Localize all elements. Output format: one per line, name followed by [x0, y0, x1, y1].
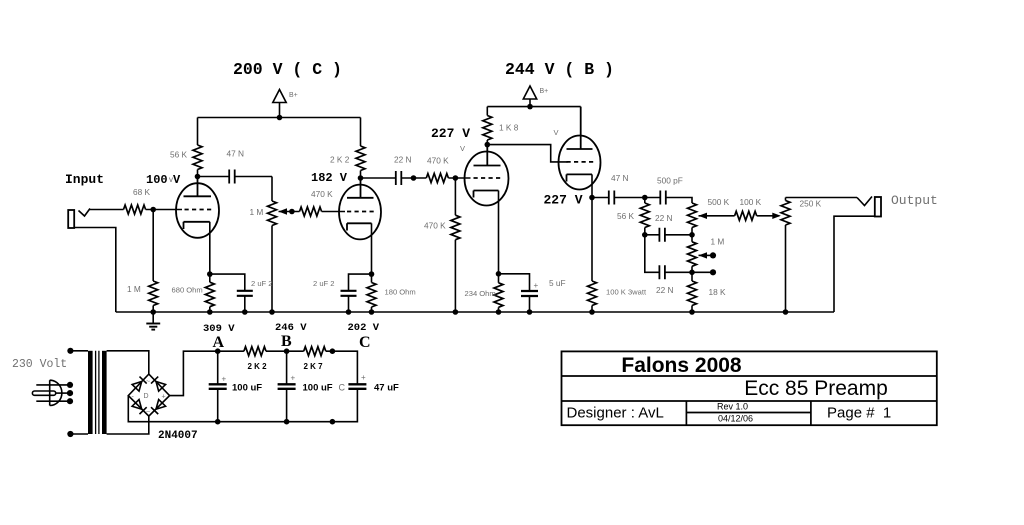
- svg-text:+: +: [534, 281, 539, 290]
- wire bridge + to node A rail: [170, 351, 244, 395]
- resistor 234 Ohm cathode V2a: [498, 274, 500, 283]
- svg-text:250 K: 250 K: [800, 199, 822, 209]
- svg-text:470 K: 470 K: [424, 221, 446, 231]
- resistor 18K: [691, 272, 693, 281]
- resistor 56K tone: [644, 198, 646, 204]
- svg-text:200 V ( C ): 200 V ( C ): [233, 60, 342, 79]
- wire output sleeve to ground: [834, 216, 875, 312]
- input jack J1: [68, 209, 90, 229]
- svg-text:470 K: 470 K: [427, 156, 449, 166]
- potentiometer 1M bass: [691, 235, 693, 242]
- svg-text:100: 100: [146, 173, 168, 187]
- svg-text:2 K 2: 2 K 2: [330, 155, 350, 165]
- ground: [146, 312, 160, 330]
- svg-text:246 V: 246 V: [275, 322, 307, 334]
- B+ symbol 2: [527, 104, 533, 110]
- svg-text:100 uF: 100 uF: [303, 383, 333, 394]
- resistor 56K plate V1a: [197, 118, 199, 146]
- svg-text:2 uF 2: 2 uF 2: [251, 279, 273, 288]
- svg-text:202 V: 202 V: [348, 322, 380, 334]
- node B: [284, 348, 290, 354]
- svg-text:47 uF: 47 uF: [374, 383, 399, 394]
- potentiometer 500K treble: [688, 203, 697, 228]
- capacitor 500pF: [660, 191, 666, 205]
- capacitor 2uF2 cathode V1b: [349, 274, 372, 290]
- capacitor 47N coupling 1: [198, 176, 230, 178]
- B+ symbol 1: [277, 115, 283, 121]
- wire secondary to bridge: [107, 351, 149, 434]
- capacitor 22N coupling 2: [361, 177, 396, 179]
- svg-text:B+: B+: [540, 88, 549, 95]
- cathode network V2a: node: [496, 271, 502, 277]
- svg-text:04/12/06: 04/12/06: [718, 414, 753, 424]
- resistor 2K2 plate V1b: [360, 118, 362, 147]
- wiper 500K: [699, 213, 708, 219]
- svg-text:+: +: [361, 373, 366, 382]
- svg-text:227 V: 227 V: [431, 126, 470, 141]
- node plate V1a: [195, 174, 201, 180]
- svg-text:+: +: [222, 375, 227, 384]
- svg-text:Page # 1: Page # 1: [827, 405, 891, 422]
- potentiometer 250K level: [785, 198, 787, 201]
- power rail 244V B: [487, 106, 580, 108]
- node grid V1a: [150, 207, 156, 213]
- svg-text:234 Ohm: 234 Ohm: [465, 289, 496, 298]
- svg-text:180 Ohm: 180 Ohm: [385, 288, 416, 297]
- svg-text:5 uF: 5 uF: [549, 278, 566, 288]
- svg-text:680 Ohm: 680 Ohm: [172, 286, 203, 295]
- svg-text:V: V: [554, 128, 559, 137]
- svg-text:V: V: [173, 173, 181, 187]
- resistor 680 Ohm cathode V1a: [209, 274, 211, 282]
- svg-text:309 V: 309 V: [203, 323, 235, 335]
- svg-text:22 N: 22 N: [655, 213, 673, 223]
- svg-text:Designer : AvL: Designer : AvL: [567, 405, 664, 422]
- resistor 100K output: [735, 211, 757, 220]
- svg-text:2 K 2: 2 K 2: [248, 362, 268, 371]
- node grid V2a: [453, 175, 459, 181]
- tube V2a ECC85 triode: [465, 145, 509, 274]
- capacitor 100uF B: [286, 351, 288, 384]
- wire ground rail: [116, 311, 834, 313]
- svg-text:B: B: [281, 333, 292, 350]
- tube V1b ECC85 triode: [339, 178, 381, 274]
- svg-text:Falons 2008: Falons 2008: [621, 354, 742, 377]
- svg-text:B+: B+: [289, 92, 298, 99]
- svg-text:C: C: [359, 334, 371, 351]
- svg-text:47 N: 47 N: [611, 173, 629, 183]
- svg-text:Ecc 85 Preamp: Ecc 85 Preamp: [744, 377, 888, 400]
- tube V1a ECC85 triode: [176, 177, 219, 275]
- output jack J2: [857, 197, 872, 206]
- resistor 470K grid V2a: [454, 178, 456, 215]
- svg-text:244 V ( B ): 244 V ( B ): [505, 60, 614, 79]
- resistor 100K 3watt: [591, 198, 593, 282]
- svg-text:470 K: 470 K: [311, 189, 333, 199]
- node cathode V2b 227V: [589, 195, 595, 201]
- svg-text:Rev 1.0: Rev 1.0: [717, 402, 748, 412]
- resistor 2K2 supply: [244, 347, 266, 356]
- svg-text:V: V: [460, 144, 465, 153]
- svg-text:v: v: [169, 175, 173, 184]
- resistor 1M grid leak: [152, 210, 154, 282]
- svg-text:500 pF: 500 pF: [657, 176, 683, 186]
- svg-text:68 K: 68 K: [133, 187, 151, 197]
- resistor 180 Ohm cathode V1b: [371, 274, 373, 282]
- svg-text:D: D: [144, 393, 149, 400]
- wire jack sleeve to ground: [74, 228, 116, 313]
- svg-text:18 K: 18 K: [709, 287, 727, 297]
- wire bridge - return: [128, 389, 357, 422]
- node plate V1b: [358, 175, 364, 181]
- wiper 1M bass: [699, 252, 708, 258]
- wiper 1M volume: [279, 208, 288, 214]
- resistor 1K8 plate V2a: [486, 107, 488, 116]
- svg-text:Input: Input: [65, 172, 104, 187]
- capacitor 22N mid: [645, 234, 660, 236]
- svg-text:22 N: 22 N: [394, 155, 412, 165]
- wiper 250K arrow: [772, 213, 781, 219]
- cathode network V1a: node: [207, 271, 213, 277]
- tube V2b ECC85 triode: [559, 107, 601, 198]
- svg-text:47 N: 47 N: [227, 149, 245, 159]
- resistor 470K series: [426, 174, 448, 183]
- svg-text:1 M: 1 M: [250, 207, 264, 217]
- svg-text:+: +: [291, 374, 296, 383]
- svg-text:22 N: 22 N: [656, 285, 674, 295]
- wire 68K to V1a grid: [146, 209, 182, 211]
- svg-text:100 K: 100 K: [740, 197, 762, 207]
- svg-text:100 K 3watt: 100 K 3watt: [606, 288, 647, 297]
- transformer T1: [67, 348, 73, 354]
- svg-text:+: +: [162, 394, 166, 401]
- capacitor 47uF C: [348, 384, 366, 389]
- svg-text:~: ~: [146, 379, 150, 386]
- bridge rectifier D 2N4007: [128, 374, 169, 416]
- svg-text:1 M: 1 M: [711, 237, 725, 247]
- svg-text:56 K: 56 K: [617, 211, 635, 221]
- wire to output jack: [786, 197, 858, 199]
- capacitor 47N output: [592, 197, 609, 199]
- node plate V2a / grid V2b: [485, 142, 491, 148]
- node A: [215, 348, 221, 354]
- capacitor 22N bottom: [645, 235, 660, 272]
- svg-text:~: ~: [146, 409, 150, 416]
- wire dc-couple plate V2a to grid V2b: [487, 145, 567, 162]
- mains plug P1: [32, 380, 69, 405]
- capacitor 100uF A: [217, 351, 219, 384]
- power rail 200V C: [198, 117, 361, 119]
- svg-text:182 V: 182 V: [311, 171, 348, 185]
- resistor 2K7 supply: [304, 347, 326, 356]
- svg-text:230 Volt: 230 Volt: [12, 358, 67, 371]
- svg-text:1 M: 1 M: [127, 284, 141, 294]
- cathode network V1b: node: [369, 271, 375, 277]
- resistor 68K: [124, 205, 146, 214]
- svg-text:2 uF 2: 2 uF 2: [313, 279, 335, 288]
- svg-text:227 V: 227 V: [544, 193, 583, 208]
- svg-text:2 K 7: 2 K 7: [304, 362, 324, 371]
- capacitor 5uF cathode V2a: [499, 274, 530, 291]
- svg-text:A: A: [213, 334, 225, 351]
- svg-text:500 K: 500 K: [708, 197, 730, 207]
- resistor 470K grid V1b: [300, 207, 322, 216]
- svg-text:Output: Output: [891, 193, 938, 208]
- svg-text:2N4007: 2N4007: [158, 430, 198, 442]
- title block frame: [562, 351, 937, 425]
- svg-text:100 uF: 100 uF: [232, 383, 262, 394]
- svg-text:1 K 8: 1 K 8: [499, 123, 519, 133]
- capacitor 2uF2 cathode V1a: [210, 274, 245, 290]
- potentiometer 1M volume: [271, 177, 273, 202]
- wire input to 68K: [90, 209, 124, 211]
- svg-text:56 K: 56 K: [170, 150, 188, 160]
- svg-text:C: C: [339, 383, 346, 393]
